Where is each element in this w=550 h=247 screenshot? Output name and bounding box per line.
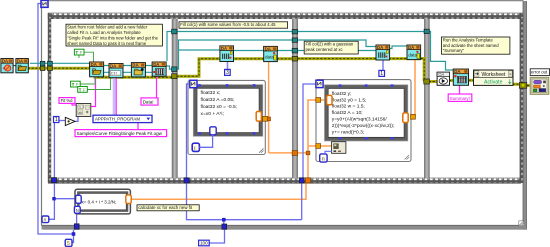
svg-text:float32 A =0.05;: float32 A =0.05; bbox=[201, 97, 235, 103]
increment node (+1 triangle) bbox=[65, 117, 75, 125]
tunnel: blue on outer loop bottom border (expression N input) bbox=[74, 224, 79, 229]
VI icon: DA create folder "Fit n" bbox=[109, 63, 123, 77]
frame2 loop corner icon bbox=[316, 80, 323, 87]
frame1 formula orange out terminal bbox=[256, 112, 261, 122]
svg-text:DA: DA bbox=[265, 46, 271, 51]
svg-text:T: T bbox=[76, 50, 79, 55]
VI icon: DA get column (frame 1) bbox=[220, 46, 234, 62]
wire: orange output of frame2 loop up to DA Set Column Values bbox=[414, 59, 416, 116]
svg-text:Samples\Curve Fitting\Single P: Samples\Curve Fitting\Single Peak Fit.og… bbox=[77, 131, 163, 136]
for-loop frame1 (float32 x formula) bbox=[188, 80, 265, 154]
tunnel: teal pair on outer-loop & sequence left edge bbox=[40, 61, 45, 66]
wire: blue frame1 loop icon down to film tunnel bbox=[187, 84, 191, 179]
VI icon: DA close/quit (outside loop) bbox=[1, 59, 13, 73]
svg-text:data: data bbox=[265, 55, 274, 60]
frame2 small beige icon (xc calc) bbox=[332, 142, 346, 154]
svg-text:called Fit n. Load an Analysis: called Fit n. Load an Analysis Template bbox=[67, 30, 141, 35]
svg-text:2)))*exp(-2*pow(((x-xc)/w,2));: 2)))*exp(-2*pow(((x-xc)/w,2)); bbox=[332, 123, 394, 129]
svg-text:DA: DA bbox=[132, 63, 138, 68]
wire: blue 100-const line along bottom and up into frames bbox=[187, 183, 302, 220]
tunnel: teal on divider1 (y=69) bbox=[172, 67, 177, 72]
frame divider 1 bbox=[172, 19, 177, 178]
wire: blue "3" const up to DA icon frame 1 bbox=[227, 62, 229, 71]
svg-text:float32 x0 = -0.5;: float32 x0 = -0.5; bbox=[201, 104, 238, 110]
svg-text:error out: error out bbox=[531, 70, 548, 75]
wire: teal top run (frame0 up to y=31.5, across frames 1,2 into frame 3) bbox=[167, 32, 294, 62]
VI icon: OA run analysis template (white icon) bbox=[437, 72, 449, 85]
tunnel: olive on divider3 (y=81.5) bbox=[424, 79, 430, 84]
VI icon: DA open root folder bbox=[90, 62, 104, 77]
svg-text:calculate xc for each new fit: calculate xc for each new fit bbox=[138, 205, 193, 210]
svg-text:peak centered at xc: peak centered at xc bbox=[306, 47, 344, 52]
flat sequence structure: film-strip borders bbox=[48, 13, 524, 19]
frame2 formula orange out terminal bbox=[403, 113, 408, 123]
frame2 loop xc tunnel bbox=[316, 144, 321, 149]
svg-text:DA: DA bbox=[153, 62, 159, 67]
svg-text:DA: DA bbox=[91, 62, 97, 67]
svg-text:Start from root folder and add: Start from root folder and add a new fol… bbox=[67, 25, 147, 30]
svg-text:"Summary": "Summary" bbox=[443, 48, 465, 53]
outer loop corner icon (top-left) bbox=[41, 0, 48, 7]
wire: magenta ring to path constant bbox=[137, 123, 139, 131]
VI icon: DA set column values (frame 2) bbox=[407, 45, 421, 60]
wire frame2: n const to beige icon bbox=[325, 151, 332, 154]
svg-text:Data!: Data! bbox=[143, 100, 154, 105]
svg-text:x=x0 + A*i;: x=x0 + A*i; bbox=[201, 111, 224, 117]
svg-text:Fit %d: Fit %d bbox=[61, 98, 74, 103]
frame2 loop n constant bbox=[320, 154, 327, 162]
VI icon: DA get worksheet "Data" bbox=[152, 62, 166, 76]
frame divider 3 bbox=[424, 19, 429, 178]
black link wire between the two DA icons bbox=[13, 65, 16, 67]
svg-text:DA: DA bbox=[2, 59, 8, 64]
svg-text:ab: ab bbox=[78, 111, 82, 115]
outer loop resize grip bbox=[519, 221, 524, 226]
svg-text:C1t...: C1t... bbox=[111, 72, 120, 76]
tunnel: orange on divider2 (y=153) bbox=[292, 151, 297, 156]
tunnel: teal on divider3 (y=31.5) bbox=[424, 29, 429, 33]
path string constant bbox=[75, 130, 167, 137]
comment: frame 0 description bbox=[66, 24, 162, 46]
tunnel: olive pair on outer-loop & sequence left edge bbox=[40, 66, 45, 70]
svg-text:Activate: Activate bbox=[484, 80, 503, 86]
indicator: error out cluster bbox=[530, 77, 549, 94]
wire frame1: i const to terminal bbox=[199, 135, 212, 148]
loop count terminal n (inside bottom-left) bbox=[42, 216, 49, 223]
numeric constant 3 (frame 1) bbox=[225, 69, 231, 76]
outer loop border (top/left thin, bottom/right thick) bbox=[41, 7, 43, 226]
svg-text:T: T bbox=[72, 82, 75, 87]
tunnels: teal x3 on divider2 bbox=[292, 30, 297, 34]
VI icon: DA activate worksheet Summary bbox=[453, 69, 468, 85]
wire: magenta Summary! to DA worksheet icon frame3 bbox=[459, 85, 461, 95]
comment: expression node description bbox=[137, 205, 199, 211]
wire: magenta Data const to icon D bbox=[156, 77, 158, 99]
comment: frame 1 description bbox=[179, 22, 288, 28]
svg-text:DA: DA bbox=[110, 63, 116, 68]
wire: green booleans frame 0 bbox=[84, 52, 94, 62]
frame2 loop resize grip bbox=[405, 155, 410, 160]
wire: blue "1" const up to DA icon frame 2 bbox=[382, 60, 384, 71]
svg-text:float32 A = 10;: float32 A = 10; bbox=[332, 110, 363, 116]
svg-text:T: T bbox=[79, 87, 82, 92]
svg-text:OA: OA bbox=[438, 72, 444, 77]
format into string node bbox=[76, 104, 91, 117]
tunnel: olive on divider2 bbox=[292, 56, 297, 61]
svg-text:F: F bbox=[80, 50, 83, 55]
tunnel: blue film tunnels on sequence bottom band bbox=[52, 178, 57, 183]
wire: orange from expression node to film tunnel (bottom area) bbox=[131, 183, 307, 199]
svg-text:DA: DA bbox=[17, 59, 23, 64]
svg-text:Fill col(2) with a gaussian: Fill col(2) with a gaussian bbox=[306, 42, 354, 47]
orange junction frame2 bbox=[306, 151, 310, 155]
wire: olive worksheet wire main run bbox=[28, 67, 95, 70]
expression node output terminal bbox=[126, 195, 131, 204]
tunnel: teal on divider1 (y=31.5) bbox=[172, 29, 177, 34]
svg-text:Fill col(1) with some values f: Fill col(1) with some values from -0.5 t… bbox=[180, 22, 276, 27]
svg-text:x= 0.4 + i * 3.2/N;: x= 0.4 + i * 3.2/N; bbox=[82, 199, 117, 204]
svg-text:DA: DA bbox=[408, 45, 414, 50]
svg-text:sheet named Data to pass it to: sheet named Data to pass it to next fram… bbox=[67, 41, 147, 46]
svg-text:DA: DA bbox=[454, 69, 460, 74]
string constant "Summary!" bbox=[448, 94, 472, 101]
tunnel: orange film tunnel on sequence bottom band bbox=[305, 178, 310, 183]
boolean constant TF #1 bbox=[74, 49, 84, 55]
indicator label: error out bbox=[530, 69, 549, 76]
svg-text:Summary!: Summary! bbox=[450, 96, 470, 101]
svg-text:n: n bbox=[322, 156, 325, 162]
svg-text:data: data bbox=[408, 53, 417, 58]
VI icon: DA load analysis template bbox=[131, 63, 145, 77]
wire: blue "1" to increment node bbox=[59, 120, 66, 122]
svg-text:DA: DA bbox=[221, 46, 227, 51]
svg-text:3: 3 bbox=[226, 70, 229, 76]
frame1 formula i-input terminal bbox=[210, 127, 216, 135]
expression node x=0.4+i*3.2/N bbox=[74, 189, 131, 214]
svg-text:F: F bbox=[83, 87, 86, 92]
string constant "Data" bbox=[141, 98, 158, 105]
tunnel: olive on sequence+loop right edge (error line) bbox=[519, 83, 526, 89]
iteration terminal i (below loop) bbox=[65, 239, 72, 247]
invoke node: Worksheet -> Activate bbox=[474, 70, 514, 86]
frame1 loop output tunnel bbox=[263, 116, 268, 121]
tunnel: olive on divider1 (y=76) bbox=[172, 74, 177, 79]
boolean constant TF #3 bbox=[78, 87, 88, 93]
svg-text:N: N bbox=[76, 208, 79, 213]
wire: orange in frame 2: from divider tunnel to formula x input and xc to icon bbox=[298, 152, 309, 154]
boolean constant TF #2 bbox=[71, 81, 81, 87]
svg-text:1: 1 bbox=[380, 71, 383, 77]
frame1 loop resize grip bbox=[259, 148, 264, 153]
svg-text:%.3: %.3 bbox=[78, 105, 84, 109]
svg-text:y+= rand()*0.3;: y+= rand()*0.3; bbox=[332, 130, 364, 136]
VI icon: DA connect to Origin (outside loop) bbox=[16, 59, 28, 73]
svg-text:float32 y;: float32 y; bbox=[332, 91, 352, 97]
frame2 loop output tunnel bbox=[411, 114, 416, 119]
svg-text:n: n bbox=[44, 218, 47, 223]
frame1 formula blue dots bbox=[198, 84, 201, 87]
comment: frame 2 description bbox=[304, 41, 358, 54]
numeric constant 1 (frame 2) bbox=[379, 70, 385, 77]
for-loop frame2 (gaussian formula) bbox=[316, 80, 411, 162]
numeric constant 1 (frame 0) bbox=[54, 117, 59, 124]
svg-text:DA: DA bbox=[377, 45, 383, 50]
orange junction frame1 bbox=[267, 117, 271, 121]
svg-text:»: » bbox=[509, 72, 512, 77]
svg-text:"Single Peak Fit" into this ne: "Single Peak Fit" into this new folder a… bbox=[67, 35, 158, 40]
frame1 loop i constant bbox=[192, 143, 199, 151]
wire: blue feedback wire from outer-loop corner icon to bottom tunnel bbox=[38, 4, 74, 235]
ring constant APPPATH_PROGRAM bbox=[93, 115, 152, 122]
frame2 loop x input tunnel bbox=[316, 98, 321, 103]
frame2 formula blue dots bbox=[339, 84, 342, 87]
wire: magenta from icon B down to ring constant bbox=[115, 78, 117, 116]
wire: magenta Fit %d into format node bbox=[72, 103, 77, 105]
numeric constant 100 (below loop) bbox=[199, 240, 210, 246]
svg-text:and activate the sheet named: and activate the sheet named bbox=[443, 43, 499, 48]
expression node input terminal i bbox=[76, 195, 82, 203]
wire: blue frame2 loop icon left and down to film tunnel bbox=[303, 84, 317, 179]
svg-text:APPPATH_PROGRAM: APPPATH_PROGRAM bbox=[95, 117, 140, 122]
svg-text:1: 1 bbox=[55, 117, 58, 123]
expression node input terminal N bbox=[74, 206, 80, 213]
comment: frame 3 description bbox=[442, 37, 510, 54]
svg-text:100: 100 bbox=[200, 240, 208, 245]
frame1 loop corner icon bbox=[190, 80, 197, 87]
svg-text:y=y0+(A/(w*sqrt(3.14156/: y=y0+(A/(w*sqrt(3.14156/ bbox=[332, 117, 388, 123]
wire: blue from "1" const down to film tunnel, to expression node bbox=[53, 123, 55, 179]
wire: violet path wire from DA create-folder icon down to ring constant bbox=[113, 77, 115, 116]
wire: teal from icon D to divider1 tunnel, up and across frame 1 bbox=[166, 66, 174, 69]
svg-text:float32 x;: float32 x; bbox=[201, 90, 221, 96]
svg-text:float32 w = 1.5;: float32 w = 1.5; bbox=[332, 104, 365, 110]
wire: teal session ref from DA Connect across frame 0 bbox=[30, 62, 90, 64]
wire: teal across frame 2 into DA icons bbox=[298, 40, 378, 47]
string constant "Fit %d" bbox=[59, 98, 75, 104]
frame divider 2 bbox=[292, 19, 297, 178]
VI icon: DA set column values (frame 1) bbox=[264, 46, 278, 61]
svg-text:float32 y0 = 1.5;: float32 y0 = 1.5; bbox=[332, 97, 367, 103]
svg-text:5: 5 bbox=[67, 241, 70, 247]
wire: blue expression N input from bottom tunnel bbox=[76, 213, 78, 225]
tunnel: blue on outer loop bottom border (100 const) bbox=[222, 224, 227, 229]
svg-text:Run the Analysis Template: Run the Analysis Template bbox=[443, 37, 494, 42]
VI icon: DA get column (frame 2) bbox=[376, 45, 390, 60]
svg-text:i: i bbox=[194, 146, 195, 152]
wire: orange x-array from frame1 loop up to DA Set Column Values and down through divider bbox=[267, 118, 269, 120]
wire: magenta from format node up to icon A bbox=[91, 77, 96, 107]
junction on feedback wire bbox=[72, 232, 76, 236]
frame2 formula x input terminal bbox=[327, 95, 332, 104]
svg-text:Worksheet: Worksheet bbox=[482, 72, 506, 78]
